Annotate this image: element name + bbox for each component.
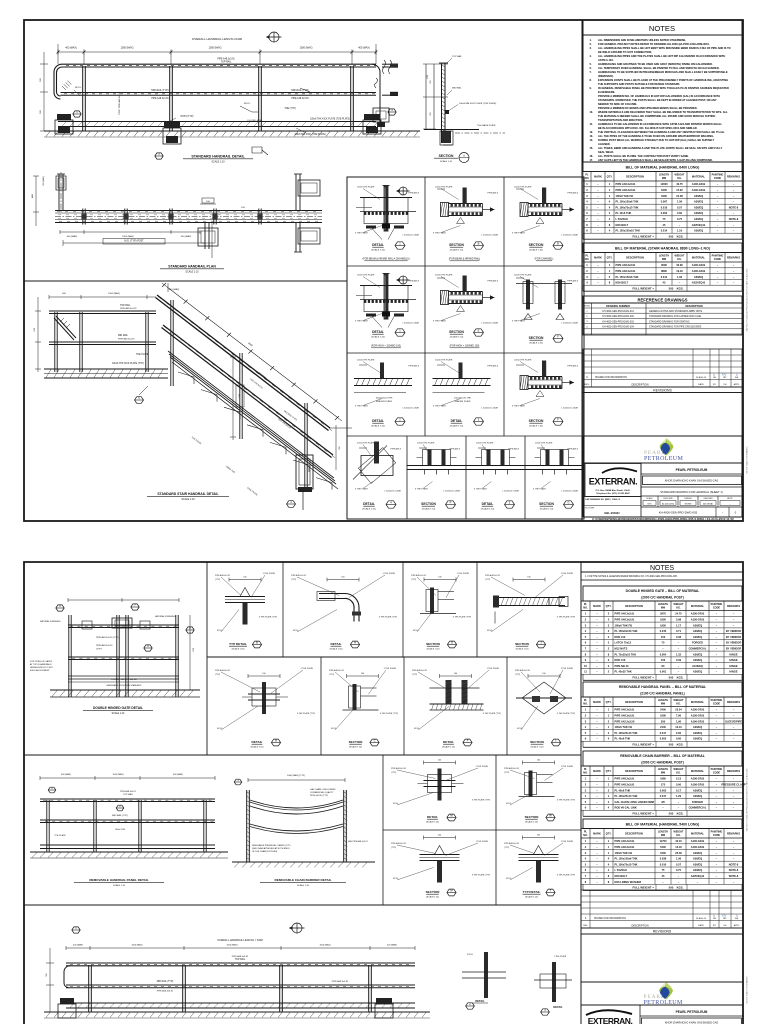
svg-text:MATERIAL: MATERIAL	[691, 700, 705, 704]
svg-text:–: –	[596, 875, 598, 878]
svg-text:L 50x50x6 CLEAT: L 50x50x6 CLEAT	[502, 490, 519, 493]
svg-text:(TYP): (TYP)	[329, 674, 335, 676]
base plate mid	[164, 122, 180, 128]
svg-text:A36/EQ: A36/EQ	[693, 731, 702, 735]
svg-text:–: –	[678, 671, 680, 674]
svg-text:4: 4	[586, 326, 588, 328]
svg-text:100x6 THK PLATE: 100x6 THK PLATE	[514, 186, 532, 189]
svg-text:ASTM A 123.: ASTM A 123.	[598, 58, 614, 62]
svg-text:EXTERRAN.: EXTERRAN.	[589, 477, 637, 487]
svg-text:PIPE A48.3: PIPE A48.3	[449, 448, 460, 451]
svg-text:(SCALE 1:10): (SCALE 1:10)	[330, 647, 343, 650]
svg-text:MM: MM	[662, 258, 666, 261]
svg-text:A: A	[463, 154, 465, 157]
svg-text:9.: 9.	[590, 86, 592, 90]
svg-text:TOP RAIL: TOP RAIL	[123, 793, 134, 796]
svg-text:PL 100x75x10 THK: PL 100x75x10 THK	[615, 862, 638, 866]
svg-text:–: –	[717, 212, 719, 215]
svg-text:2970: 2970	[660, 612, 666, 616]
svg-text:NEEDED TO SIDE OF COLUMN.: NEEDED TO SIDE OF COLUMN.	[598, 102, 637, 106]
gate bottom dim	[68, 681, 179, 683]
svg-text:–: –	[733, 195, 735, 198]
svg-text:TOE (TYP): TOE (TYP)	[284, 108, 296, 110]
svg-text:ALL HANDRAILING PIPES SHALL BE: ALL HANDRAILING PIPES SHALL BE HOT BENT …	[598, 46, 731, 50]
svg-text:SECTION: SECTION	[539, 502, 554, 506]
svg-text:SECTION: SECTION	[529, 419, 544, 423]
svg-text:SECTION: SECTION	[525, 815, 540, 819]
svg-text:MID RAIL (TYP): MID RAIL (TYP)	[112, 814, 128, 817]
svg-text:4: 4	[608, 868, 610, 872]
svg-text:PIPE A48.3x3.91: PIPE A48.3x3.91	[391, 842, 407, 845]
svg-text:8.: 8.	[590, 78, 592, 82]
svg-text:–: –	[679, 282, 681, 285]
detail cell DETAIL 5	[466, 465, 526, 467]
svg-text:MID RAIL (TYP): MID RAIL (TYP)	[151, 89, 168, 92]
svg-text:DETAIL: DETAIL	[427, 815, 438, 819]
svg-text:KGS.: KGS.	[677, 886, 684, 890]
flag symbol in DETAIL	[359, 364, 367, 366]
svg-text:(FOR HIGH > 100/MID 100): (FOR HIGH > 100/MID 100)	[371, 345, 401, 348]
stair posts on slope	[170, 300, 172, 386]
svg-text:6 THK PLATE (TYP): 6 THK PLATE (TYP)	[379, 616, 397, 619]
svg-text:100x6 THK PLATE: 100x6 THK PLATE	[514, 274, 532, 277]
svg-text:–: –	[716, 858, 718, 861]
stair landing dims	[49, 296, 156, 298]
svg-text:NO.: NO.	[583, 606, 588, 609]
svg-text:B: B	[256, 641, 258, 645]
svg-text:G: G	[451, 641, 453, 645]
svg-text:–: –	[596, 846, 598, 849]
svg-text:6 THK PLATE (TYP): 6 THK PLATE (TYP)	[557, 712, 575, 715]
svg-text:M.O. (TYP) POST: M.O. (TYP) POST	[124, 240, 144, 243]
detail cell DETAIL 3	[433, 378, 491, 380]
svg-text:11: 11	[584, 670, 587, 674]
svg-text:–: –	[678, 881, 680, 884]
svg-text:6 THK PLATE: 6 THK PLATE	[355, 320, 368, 323]
bottom handrail detail drawing sheet2	[66, 947, 415, 949]
svg-text:AT TOP IN HANDRAILS: AT TOP IN HANDRAILS	[30, 663, 52, 666]
svg-text:–: –	[596, 709, 598, 712]
stair extra toe plate diagonal	[168, 351, 334, 478]
svg-text:A36/EQ: A36/EQ	[694, 200, 703, 204]
standard handrail plan drawing	[55, 210, 322, 212]
svg-text:HINGE: HINGE	[729, 670, 737, 674]
svg-text:1.16: 1.16	[677, 229, 683, 233]
stair diagonal mid rail	[163, 325, 333, 455]
stair mid hexagon	[135, 397, 144, 404]
top rail	[62, 63, 376, 65]
svg-text:100: 100	[243, 577, 246, 579]
svg-text:4.: 4.	[590, 54, 592, 58]
svg-text:(SCALE 1:10): (SCALE 1:10)	[232, 647, 245, 650]
svg-text:NOTE-8: NOTE-8	[729, 217, 739, 221]
svg-text:DESCRIPTION: DESCRIPTION	[625, 831, 643, 835]
cell dim line	[347, 675, 379, 677]
gate dims	[68, 599, 179, 601]
svg-text:OVERALL HANDRAIL LENGTH = 5400: OVERALL HANDRAIL LENGTH = 5400	[217, 938, 263, 942]
svg-text:1 THK PLATE: 1 THK PLATE	[301, 667, 314, 670]
svg-text:–: –	[717, 224, 719, 227]
svg-text:A36/EQ: A36/EQ	[693, 857, 702, 861]
flag symbol in SECTION	[419, 447, 427, 449]
hexagon bottom left	[72, 927, 80, 933]
svg-text:5: 5	[585, 800, 587, 804]
dim line overall	[58, 51, 376, 53]
svg-text:(TYP): (TYP)	[215, 579, 221, 581]
svg-text:SECTION: SECTION	[426, 890, 441, 894]
svg-text:DOUBLE HINGED GATE – BILL OF M: DOUBLE HINGED GATE – BILL OF MATERIAL	[626, 589, 700, 593]
svg-text:45%%: 45%%	[244, 103, 250, 105]
svg-text:PIPE A48.3x3.91: PIPE A48.3x3.91	[391, 767, 407, 770]
svg-text:CAD DRAWING NO. (REF) . DWG. N: CAD DRAWING NO. (REF) . DWG. N	[585, 498, 620, 501]
svg-text:G: G	[567, 501, 569, 505]
svg-text:0.045: 0.045	[660, 629, 667, 633]
svg-text:400 (MAX): 400 (MAX)	[173, 773, 183, 776]
svg-text:100x6 THK KICK PLATE (TOE PLAT: 100x6 THK KICK PLATE (TOE PLATE)	[310, 118, 350, 121]
svg-text:L 50x50x6 CLEAT: L 50x50x6 CLEAT	[561, 322, 578, 325]
chain floor	[232, 861, 375, 863]
svg-text:8: 8	[585, 652, 587, 656]
svg-text:3: 3	[586, 194, 588, 198]
svg-text:–: –	[596, 858, 598, 861]
dim left bottom drawing	[49, 948, 51, 1012]
detail cell SECTION F	[520, 376, 528, 390]
svg-text:3: 3	[585, 719, 587, 723]
svg-text:12.: 12.	[590, 130, 594, 134]
svg-text:–: –	[733, 230, 735, 233]
svg-text:500: 500	[46, 972, 48, 976]
flag symbol in SECTION	[437, 188, 445, 190]
svg-text:2: 2	[608, 612, 610, 616]
svg-text:1500 (MAX): 1500 (MAX)	[319, 944, 330, 947]
svg-text:MATERIAL: MATERIAL	[691, 769, 705, 773]
svg-text:M12 NUTS: M12 NUTS	[615, 647, 628, 651]
svg-text:A36/EQ: A36/EQ	[693, 670, 702, 674]
svg-text:PEARL PETROLEUM: PEARL PETROLEUM	[676, 1010, 708, 1014]
svg-text:NOTE-8: NOTE-8	[729, 868, 739, 872]
svg-text:13.40: 13.40	[675, 845, 682, 849]
svg-text:16.: 16.	[590, 154, 594, 158]
svg-text:DO NOT SCALE THIS DRAWING: DO NOT SCALE THIS DRAWING	[746, 976, 749, 1004]
svg-text:(TYP): (TYP)	[291, 579, 297, 581]
svg-text:3: 3	[586, 321, 588, 323]
svg-text:A36/EQ: A36/EQ	[694, 205, 703, 209]
svg-text:PIPE A48.3x3.91: PIPE A48.3x3.91	[616, 188, 637, 192]
svg-text:PIPE A48.3: PIPE A48.3	[567, 280, 578, 283]
svg-text:KG.: KG.	[676, 834, 681, 837]
svg-text:1: 1	[608, 783, 610, 787]
svg-text:CH.: CH.	[723, 384, 727, 386]
svg-text:10: 10	[584, 664, 587, 668]
svg-text:–: –	[596, 613, 598, 616]
svg-text:–: –	[716, 624, 718, 627]
svg-text:THE MATERIALS NEEDED SHALL BE: THE MATERIALS NEEDED SHALL BE COMPRISING…	[598, 114, 715, 118]
svg-text:(SCALE 1:10): (SCALE 1:10)	[481, 508, 495, 511]
svg-text:(REMOVED).: (REMOVED).	[598, 74, 614, 78]
svg-text:6 THK PLATE: 6 THK PLATE	[433, 405, 446, 408]
svg-text:KGS.: KGS.	[677, 676, 684, 680]
svg-text:TYP DETAIL: TYP DETAIL	[229, 642, 247, 646]
gate center hinge boxes	[112, 618, 132, 628]
svg-text:100x100x10 THK: 100x100x10 THK	[376, 398, 393, 400]
pearl petroleum logo	[644, 439, 683, 463]
svg-text:9000: 9000	[247, 343, 253, 348]
flag symbol in SECTION	[516, 364, 524, 366]
svg-text:ALL TUBES, BEND AND HANDRAILS: ALL TUBES, BEND AND HANDRAILS AND TOE PL…	[598, 146, 723, 150]
svg-text:My: My	[722, 373, 727, 377]
sheet2 cell DETAIL	[446, 680, 452, 704]
svg-text:PIPE A48.3: PIPE A48.3	[487, 280, 498, 283]
svg-text:3: 3	[585, 788, 587, 792]
svg-text:PL 75x25x10 THK: PL 75x25x10 THK	[615, 652, 637, 656]
svg-text:150: 150	[661, 635, 666, 639]
svg-text:–: –	[678, 875, 680, 878]
svg-text:–: –	[596, 726, 598, 729]
svg-text:4: 4	[608, 800, 610, 804]
svg-text:0.17: 0.17	[676, 788, 682, 792]
plan post ticks	[82, 209, 84, 225]
svg-text:SECTION: SECTION	[421, 502, 436, 506]
svg-text:PL 150x6x150 THK: PL 150x6x150 THK	[615, 629, 638, 633]
svg-text:(TYP): (TYP)	[504, 847, 510, 849]
revisions bar	[583, 387, 742, 393]
svg-text:80: 80	[662, 664, 665, 668]
svg-text:–: –	[596, 784, 598, 787]
svg-text:PL 150x150x6 THK: PL 150x150x6 THK	[616, 200, 639, 204]
svg-text:–: –	[717, 218, 719, 221]
svg-text:A106-GR.B: A106-GR.B	[692, 182, 706, 186]
svg-text:IN GENERAL REMOVABLE PANEL BE: IN GENERAL REMOVABLE PANEL BE PROVIDED W…	[598, 86, 729, 90]
svg-text:KG.: KG.	[676, 771, 681, 774]
svg-text:GENERAL NOTES AND STANDARDS AB: GENERAL NOTES AND STANDARDS ABBV NOTE	[649, 310, 703, 313]
svg-text:8: 8	[609, 223, 611, 227]
detail cell SECTION F	[526, 280, 530, 310]
svg-text:2: 2	[586, 269, 588, 273]
svg-text:ALL TEMPORARY FIXED HANDRAIL S: ALL TEMPORARY FIXED HANDRAIL SHALL BE PA…	[598, 66, 720, 70]
svg-text:–: –	[596, 881, 598, 884]
svg-text:PIPE A48.3x3.91: PIPE A48.3x3.91	[504, 767, 520, 770]
svg-text:4: 4	[609, 211, 611, 215]
cell dim line	[523, 837, 555, 839]
svg-text:5.13: 5.13	[676, 777, 682, 781]
cell dim line	[528, 675, 560, 677]
svg-text:8890: 8890	[661, 269, 667, 273]
svg-text:8: 8	[586, 223, 588, 227]
svg-text:NTS: NTS	[648, 503, 653, 505]
svg-text:5: 5	[585, 731, 587, 735]
svg-text:(SCALE 1:10): (SCALE 1:10)	[426, 895, 439, 898]
svg-text:–: –	[716, 881, 718, 884]
svg-text:–: –	[716, 869, 718, 872]
svg-text:(SCALE 1:10): (SCALE 1:10)	[525, 820, 538, 823]
svg-text:(SCALE 1:10): (SCALE 1:10)	[362, 508, 376, 511]
svg-text:(SCALE 1:10): (SCALE 1:10)	[426, 820, 439, 823]
svg-text:–: –	[716, 630, 718, 633]
svg-text:250: 250	[339, 445, 341, 449]
svg-text:A36/EQ: A36/EQ	[694, 194, 703, 198]
svg-text:100x6 THK FB: 100x6 THK FB	[615, 623, 633, 627]
svg-text:–: –	[716, 807, 718, 810]
svg-text:–: –	[733, 778, 735, 781]
svg-text:PIPE A48.3: PIPE A48.3	[508, 448, 519, 451]
svg-text:ALL DIMENSIONS ARE IN MILLIMET: ALL DIMENSIONS ARE IN MILLIMETERS UNLESS…	[598, 38, 686, 42]
plan right corner posts	[295, 174, 297, 211]
svg-text:–: –	[596, 619, 598, 622]
svg-text:100x6 THK PLATE: 100x6 THK PLATE	[357, 359, 375, 362]
divider: plan/stair	[24, 280, 347, 282]
svg-text:PEARL PETROLEUM: PEARL PETROLEUM	[676, 468, 708, 472]
svg-text:–: –	[597, 212, 599, 215]
svg-text:–: –	[662, 881, 664, 884]
svg-text:DETAIL: DETAIL	[553, 1005, 563, 1009]
svg-text:1: 1	[609, 263, 611, 267]
svg-text:6: 6	[585, 868, 587, 872]
sheet2 cell SECTION	[353, 684, 357, 710]
svg-text:C:\USERS\PSD\KH4000GEN\STANDAR: C:\USERS\PSD\KH4000GEN\STANDARDS\KH-4000…	[592, 517, 734, 521]
svg-text:REMOVABLE CHAIN BARRIER DETAIL: REMOVABLE CHAIN BARRIER DETAIL	[275, 878, 332, 882]
detail cell SECTION P	[407, 465, 467, 467]
detail cell DETAIL 1	[384, 186, 389, 232]
svg-text:PL 100x75x10 THK: PL 100x75x10 THK	[616, 205, 639, 209]
svg-text:–: –	[597, 195, 599, 198]
svg-text:BILL OF MATERIAL (HANDRAIL 540: BILL OF MATERIAL (HANDRAIL 5400 LONG)	[626, 823, 700, 827]
svg-text:REMARKS: REMARKS	[727, 604, 740, 608]
svg-text:9090: 9090	[661, 263, 667, 267]
svg-text:CAD FILE: KH-4000-GEN-PRO-DWG-: CAD FILE: KH-4000-GEN-PRO-DWG-005-0.DWG …	[746, 269, 749, 332]
svg-text:TYP DETAIL: TYP DETAIL	[523, 890, 541, 894]
svg-text:MAX: MAX	[31, 193, 34, 198]
left dim vertical	[43, 52, 45, 131]
svg-text:P.O. Box 30688 Abu Dhabi, U.: P.O. Box 30688 Abu Dhabi, U.A.E.	[596, 489, 631, 492]
svg-text:6 THK PLATE (TYP): 6 THK PLATE (TYP)	[472, 799, 490, 802]
section A dims	[425, 64, 427, 129]
sheet2 cell TYP DETAIL	[519, 854, 559, 856]
svg-text:0.09: 0.09	[676, 658, 682, 662]
svg-text:A106-GR.B: A106-GR.B	[691, 612, 705, 616]
svg-text:0.57: 0.57	[676, 862, 682, 866]
svg-text:TOE PLATE: TOE PLATE	[136, 353, 149, 356]
bom table: REMOVABLE CHAIN BARRIER – BILL OF MATERIAL	[583, 751, 742, 766]
svg-text:P: P	[450, 501, 452, 505]
svg-text:–: –	[733, 619, 735, 622]
svg-text:4: 4	[585, 629, 587, 633]
svg-text:–: –	[733, 264, 735, 267]
svg-text:LATCH 75x12: LATCH 75x12	[615, 641, 632, 645]
svg-text:FULL WEIGHT =: FULL WEIGHT =	[633, 812, 655, 816]
svg-text:L 50x50x6 CLEAT: L 50x50x6 CLEAT	[481, 407, 498, 410]
svg-text:PIPE A48.3x3.91: PIPE A48.3x3.91	[120, 307, 137, 310]
svg-text:Telephone No: (971) 2 6123 456: Telephone No: (971) 2 6123 4567	[596, 492, 630, 495]
svg-text:24.75: 24.75	[675, 612, 682, 616]
svg-text:SEE PIPE A48.3x3.91: SEE PIPE A48.3x3.91	[348, 840, 369, 843]
detail bubble right	[388, 109, 396, 115]
svg-text:REV.: REV.	[583, 925, 588, 927]
svg-text:(TYP): (TYP)	[391, 772, 397, 774]
svg-text:6400: 6400	[661, 194, 667, 198]
svg-text:2: 2	[608, 629, 610, 633]
svg-text:400 (MAX): 400 (MAX)	[67, 235, 78, 238]
svg-text:400 (MAX): 400 (MAX)	[73, 944, 83, 947]
svg-text:1: 1	[609, 182, 611, 186]
removable panel floor	[30, 851, 228, 853]
svg-text:6 THK PLATE (TYP): 6 THK PLATE (TYP)	[380, 712, 398, 715]
bom table: BILL OF MATERIAL (HANDRAIL 5400 LONG)	[583, 819, 742, 829]
svg-text:NO.: NO.	[585, 177, 590, 180]
svg-text:400 (MAX): 400 (MAX)	[387, 944, 397, 947]
svg-text:–: –	[597, 264, 599, 267]
svg-text:100x6 THK: 100x6 THK	[225, 466, 235, 474]
svg-text:1: 1	[608, 777, 610, 781]
svg-text:–: –	[596, 653, 598, 656]
svg-text:STANDARD STAIR HANDRAIL DETAIL: STANDARD STAIR HANDRAIL DETAIL	[157, 492, 218, 496]
stair diagonal dim lines	[162, 283, 337, 417]
svg-text:2: 2	[608, 647, 610, 651]
svg-text:–: –	[717, 264, 719, 267]
cell dim line	[248, 675, 280, 677]
svg-text:CAD FILE: KH-4000-GEN-PRO-DWG-: CAD FILE: KH-4000-GEN-PRO-DWG-006-0.DWG …	[746, 769, 749, 832]
svg-text:7: 7	[586, 217, 588, 221]
svg-text:(SCALE 1:10): (SCALE 1:10)	[371, 425, 385, 428]
svg-text:–: –	[717, 270, 719, 273]
svg-text:100: 100	[438, 577, 441, 579]
svg-text:L 50x50x6: L 50x50x6	[615, 868, 628, 872]
svg-text:STANDARD HANDRAIL DETAIL: STANDARD HANDRAIL DETAIL	[191, 155, 245, 159]
svg-text:SCALE 1:10: SCALE 1:10	[185, 271, 199, 274]
svg-text:7: 7	[585, 874, 587, 878]
svg-text:REMOVABLE PRESSURE CLAMPS (TYP: REMOVABLE PRESSURE CLAMPS (TYP)	[252, 844, 291, 847]
svg-text:MY: MY	[723, 918, 727, 920]
svg-text:A36/EQ: A36/EQ	[693, 794, 702, 798]
svg-text:PIPE A48.3x3.91: PIPE A48.3x3.91	[616, 269, 637, 273]
svg-text:My: My	[722, 914, 727, 918]
svg-text:5: 5	[609, 275, 611, 279]
svg-text:0.014: 0.014	[661, 275, 668, 279]
svg-text:HANDRAILING AND GRATINGS TO BE: HANDRAILING AND GRATINGS TO BE USED ARE …	[598, 62, 713, 66]
svg-text:100x6 THK PLATE: 100x6 THK PLATE	[357, 186, 375, 189]
svg-text:1950: 1950	[660, 618, 666, 622]
svg-text:DESCRIPTION: DESCRIPTION	[625, 604, 643, 608]
svg-text:100x6 THK KICK PLATE (TYP): 100x6 THK KICK PLATE (TYP)	[112, 362, 144, 365]
svg-text:(SCALE 1:10): (SCALE 1:10)	[516, 647, 529, 650]
svg-text:REFERENCE DRAWINGS: REFERENCE DRAWINGS	[637, 297, 687, 302]
svg-text:1 THK PLATE: 1 THK PLATE	[561, 765, 574, 768]
svg-text:EXTERRAN.: EXTERRAN.	[588, 1016, 633, 1024]
sheet2 cell DETAIL	[438, 769, 442, 801]
svg-text:(SCALE 1:10): (SCALE 1:10)	[531, 745, 544, 748]
svg-text:12000: 12000	[660, 182, 668, 186]
svg-text:–: –	[733, 715, 735, 718]
svg-text:OF THE CHAIN) FIXTURES: OF THE CHAIN) FIXTURES	[252, 850, 278, 853]
svg-text:–: –	[717, 183, 719, 186]
svg-text:6: 6	[585, 641, 587, 645]
svg-text:30.96: 30.96	[676, 263, 683, 267]
svg-text:A36/EQ: A36/EQ	[694, 211, 703, 215]
base plates bottom	[60, 998, 74, 1004]
svg-text:REMARKS: REMARKS	[727, 700, 740, 704]
svg-text:(TYP): (TYP)	[504, 772, 510, 774]
svg-text:(SCALE 1:10): (SCALE 1:10)	[529, 249, 543, 252]
svg-text:SECTION: SECTION	[530, 740, 545, 744]
svg-text:1100: 1100	[427, 74, 429, 79]
svg-text:5.98: 5.98	[676, 618, 682, 622]
svg-text:DURING POST WELD ALL WARPAGE S: DURING POST WELD ALL WARPAGE STRAIGHT DU…	[598, 138, 715, 142]
svg-text:(TYP): (TYP)	[215, 674, 221, 676]
svg-text:PL 150x150x6 THK: PL 150x150x6 THK	[616, 275, 639, 279]
svg-text:BILL OF MATERIAL (HANDRAIL 640: BILL OF MATERIAL (HANDRAIL 6400 LONG)	[626, 166, 700, 170]
svg-text:FULL WEIGHT =: FULL WEIGHT =	[633, 286, 655, 290]
svg-text:–: –	[716, 720, 718, 723]
svg-text:–: –	[733, 789, 735, 792]
